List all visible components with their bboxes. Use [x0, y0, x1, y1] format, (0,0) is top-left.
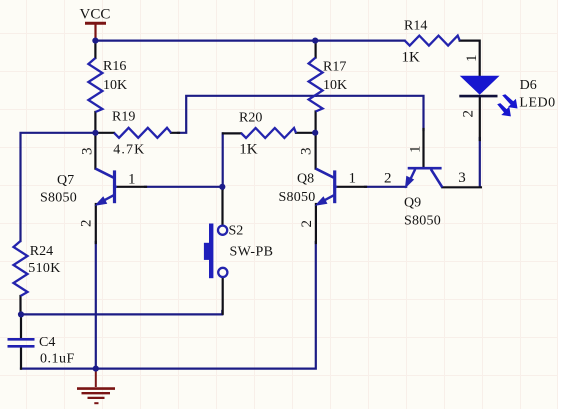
svg-text:1: 1 [464, 55, 480, 63]
svg-text:510K: 510K [28, 261, 60, 276]
svg-text:1: 1 [128, 172, 136, 188]
svg-text:C4: C4 [39, 335, 55, 350]
svg-text:1K: 1K [239, 141, 257, 157]
svg-text:Q7: Q7 [57, 173, 74, 188]
svg-text:Q9: Q9 [404, 196, 421, 211]
svg-text:R14: R14 [404, 19, 427, 34]
svg-text:1: 1 [408, 146, 424, 154]
svg-text:R16: R16 [103, 59, 126, 74]
svg-text:SW-PB: SW-PB [230, 245, 274, 260]
svg-text:S8050: S8050 [40, 191, 77, 206]
svg-text:VCC: VCC [80, 7, 111, 23]
svg-text:10K: 10K [323, 78, 347, 93]
svg-text:1: 1 [349, 171, 357, 187]
svg-text:3: 3 [299, 148, 315, 156]
svg-text:3: 3 [458, 170, 466, 186]
svg-text:R24: R24 [30, 244, 53, 259]
svg-text:LED0: LED0 [519, 96, 555, 111]
svg-text:2: 2 [299, 220, 315, 228]
svg-text:3: 3 [80, 148, 96, 156]
svg-text:R20: R20 [239, 111, 262, 126]
svg-text:S8050: S8050 [404, 213, 441, 228]
svg-text:R19: R19 [112, 110, 135, 125]
svg-text:S8050: S8050 [279, 190, 316, 205]
svg-text:0.1uF: 0.1uF [40, 352, 75, 367]
svg-text:10K: 10K [103, 78, 127, 93]
svg-text:4.7K: 4.7K [113, 143, 145, 158]
svg-text:1K: 1K [402, 49, 421, 65]
svg-text:S2: S2 [229, 224, 244, 239]
svg-text:2: 2 [461, 110, 477, 118]
svg-text:Q8: Q8 [297, 172, 314, 187]
svg-text:2: 2 [384, 171, 392, 187]
svg-text:D6: D6 [520, 78, 537, 93]
svg-text:2: 2 [79, 220, 95, 228]
svg-text:R17: R17 [323, 60, 346, 75]
